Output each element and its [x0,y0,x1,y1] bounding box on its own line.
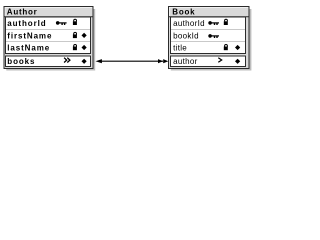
double arrowhead into Book (outer) [163,59,168,63]
attribute firstName lock icon [73,32,77,38]
attribute lastName lock icon [73,45,77,51]
association wire books-author [100,60,163,62]
double arrowhead into Book (inner) [158,59,163,63]
entity Book frame [169,7,250,69]
entity Author title separator [5,16,93,18]
reference books collection chevron [64,58,70,63]
row separator authorId/firstName [6,29,90,31]
attribute authorId lock icon [73,19,77,25]
arrowhead into Author [96,59,102,63]
svg-text:Book: Book [172,7,195,16]
attribute lastName diamond icon [82,45,87,50]
svg-text:authorId: authorId [7,19,46,28]
reference author diamond icon [235,59,240,64]
svg-text:firstName: firstName [7,32,52,41]
entity Author frame [4,7,93,69]
entity Author drop shadow [6,9,95,71]
attribute Book authorId key icon [208,21,219,25]
attribute Book authorId lock icon [224,19,228,25]
entity Book title bevel highlight [170,8,249,17]
attribute bookId key icon [208,34,219,38]
svg-text:authorId: authorId [173,19,205,28]
attribute authorId key icon [56,21,67,25]
svg-text:books: books [7,57,35,66]
attribute title lock icon [224,45,228,51]
svg-text:lastName: lastName [7,44,50,53]
entity Book fields compartment [171,17,246,54]
svg-text:Author: Author [7,7,38,16]
attribute firstName diamond icon [82,33,87,38]
entity Author title bevel highlight [5,8,92,17]
entity Book title separator [169,16,249,18]
entity Author reference compartment [6,56,91,67]
row separator authorId/bookId [171,29,245,31]
svg-text:bookId: bookId [173,32,199,41]
entity Author fields compartment [6,17,91,54]
row separator firstName/lastName [6,41,90,43]
svg-text:title: title [173,44,187,53]
entity Book drop shadow [171,9,252,71]
reference books diamond icon [82,59,87,64]
entity Book reference compartment [171,56,246,67]
svg-text:author: author [173,57,198,66]
attribute title diamond icon [235,45,240,50]
row separator bookId/title [171,41,245,43]
reference author chevron [218,58,221,63]
